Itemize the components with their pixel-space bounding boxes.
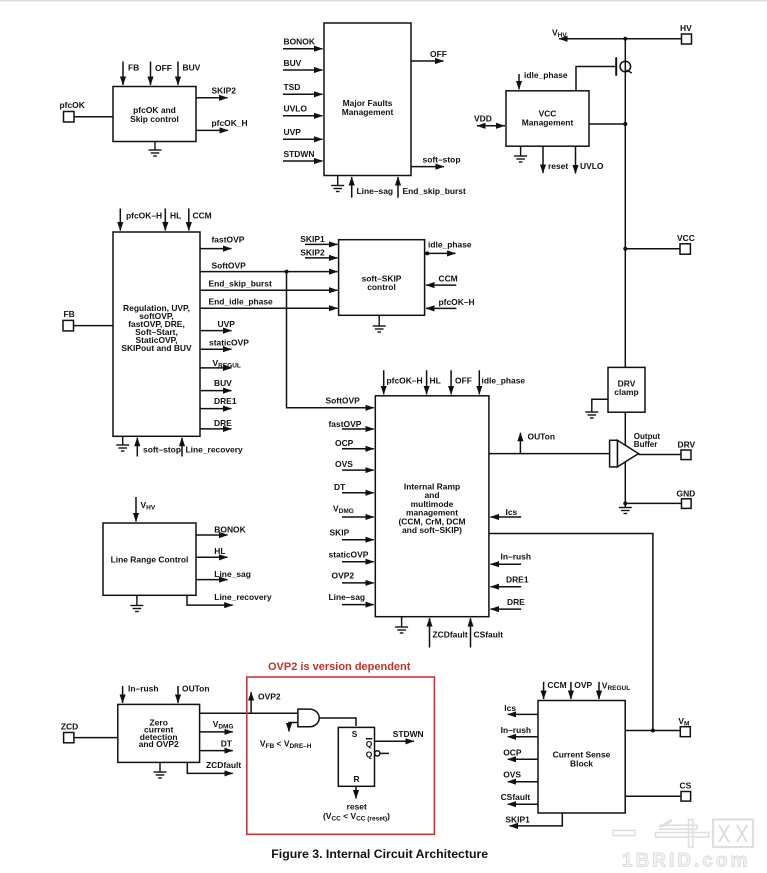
svg-text:pfcOK–H: pfcOK–H	[439, 297, 475, 307]
svg-text:CSfault: CSfault	[474, 630, 504, 640]
wire BUV output of U4	[200, 378, 232, 391]
svg-text:OVP2: OVP2	[332, 571, 355, 581]
svg-text:UVLO: UVLO	[284, 104, 308, 114]
block U1: pfcOK and Skip control	[113, 87, 196, 142]
svg-text:Line Range Control: Line Range Control	[111, 554, 189, 564]
svg-text:CCM: CCM	[193, 211, 212, 221]
wire Line_sag output of U9	[196, 569, 251, 580]
svg-text:soft–stop: soft–stop	[143, 445, 181, 455]
wire Line_recovery input to U4 bottom	[182, 438, 243, 457]
wire VDMG input to U6	[333, 504, 374, 518]
svg-text:SKIP1: SKIP1	[505, 815, 530, 825]
junction VCC-rail	[623, 247, 627, 251]
wire idle_phase input to U3	[519, 70, 568, 89]
svg-text:FB: FB	[128, 63, 139, 73]
ground left of U7	[585, 399, 608, 418]
svg-text:and OVP2: and OVP2	[139, 739, 179, 749]
wire pfcOK-H input to U5 from right	[426, 297, 475, 308]
block U9: Line Range Control	[103, 523, 196, 595]
latch U12: SR latch	[338, 727, 374, 786]
svg-text:SKIP: SKIP	[330, 528, 350, 538]
wire CCM input to U5 from right	[426, 274, 458, 286]
wire OVP input to U13	[571, 680, 593, 699]
svg-text:HL: HL	[170, 211, 181, 221]
watermark domain text	[622, 851, 750, 872]
wire OCP input to U6	[335, 438, 374, 449]
svg-text:OVS: OVS	[503, 770, 521, 780]
svg-text:OUTon: OUTon	[528, 432, 556, 442]
wire Line_recovery output of U9	[187, 592, 272, 605]
wire DT output of U10	[200, 739, 233, 751]
svg-text:CCM: CCM	[439, 274, 458, 284]
svg-text:OVP2: OVP2	[258, 692, 281, 702]
svg-text:End_skip_burst: End_skip_burst	[403, 186, 466, 196]
wire OCP output of U13	[503, 748, 538, 760]
wire OVP2 net U10 to AND gate	[200, 712, 298, 714]
svg-text:Ics: Ics	[506, 507, 518, 517]
AND gate U11	[298, 709, 319, 727]
wire CSfault output of U13	[501, 792, 538, 804]
wire AND output to latch S input	[319, 718, 356, 726]
wire comparator VFB lt VDRE-H to AND gate	[260, 723, 312, 751]
svg-text:1BRID.com: 1BRID.com	[622, 851, 750, 872]
wire VCC pad to rail	[625, 248, 680, 250]
pad HV	[680, 23, 692, 44]
wire UVP input to U2	[283, 127, 323, 139]
svg-text:idle_phase: idle_phase	[428, 240, 472, 250]
block U2: Major Faults Management	[324, 23, 411, 176]
svg-text:reset: reset	[548, 161, 568, 171]
wire OUTon stub arrow	[520, 432, 555, 454]
svg-text:UVP: UVP	[284, 127, 302, 137]
svg-text:End_skip_burst: End_skip_burst	[209, 279, 272, 289]
caption Figure 3	[271, 847, 488, 861]
wire UVP output of U4	[200, 319, 235, 331]
svg-text:VDD: VDD	[474, 114, 492, 124]
pad pfcOK	[60, 100, 86, 122]
svg-text:UVP: UVP	[218, 319, 236, 329]
junction GND rail	[623, 501, 627, 505]
svg-text:Skip control: Skip control	[130, 114, 179, 124]
wire OFF output of U2	[411, 49, 447, 61]
svg-text:idle_phase: idle_phase	[524, 70, 568, 80]
ground under U1	[149, 142, 162, 157]
wire VDD bidirectional of U3	[474, 114, 505, 126]
pad DRV	[678, 440, 696, 460]
svg-text:SKIP2: SKIP2	[212, 86, 237, 96]
svg-text:BUV: BUV	[214, 378, 232, 388]
svg-text:Q: Q	[366, 739, 373, 749]
watermark logo	[613, 820, 753, 848]
wire In-rush input to U6 right	[491, 552, 531, 565]
transistor Q1 startup	[616, 57, 632, 75]
svg-text:S: S	[352, 729, 358, 739]
wire CCM input to U4	[189, 209, 212, 231]
wire CCM input to U13	[544, 680, 567, 699]
wire fastOVP output of U4	[200, 235, 245, 249]
svg-text:Management: Management	[342, 107, 394, 117]
op-amp U8: Output Buffer	[610, 432, 661, 467]
wire CSfault input to U6 bottom	[471, 618, 504, 647]
pad GND	[677, 489, 696, 509]
svg-text:GND: GND	[677, 489, 696, 499]
wire Qbar output STDWN	[375, 729, 424, 741]
svg-text:staticOVP: staticOVP	[329, 550, 369, 560]
wire OUTon input to U10	[178, 684, 210, 703]
svg-text:fastOVP: fastOVP	[329, 419, 362, 429]
svg-text:Figure 3. Internal Circuit Arc: Figure 3. Internal Circuit Architecture	[271, 847, 488, 861]
wire HL input to U4	[165, 209, 181, 231]
wire U6 to VM net	[489, 534, 653, 731]
wire BONOK input to U2	[283, 37, 323, 49]
pad ZCD	[61, 722, 78, 743]
svg-text:OCP: OCP	[503, 748, 522, 758]
wire staticOVP input to U6	[329, 550, 374, 562]
junction HV rail	[623, 37, 627, 41]
wire ZCDfault output of U10	[187, 760, 241, 773]
svg-text:DT: DT	[221, 739, 233, 749]
wire reset input to latch R	[323, 786, 390, 822]
ground under U10	[154, 762, 167, 778]
svg-text:fastOVP: fastOVP	[212, 235, 245, 245]
svg-text:Line_recovery: Line_recovery	[186, 445, 244, 455]
svg-text:CSfault: CSfault	[501, 792, 531, 802]
svg-text:TSD: TSD	[284, 82, 301, 92]
svg-text:In–rush: In–rush	[501, 725, 531, 735]
wire STDWN input to U2	[283, 149, 323, 161]
wire U13 to VM pad	[625, 730, 680, 732]
wire In-rush output of U13	[501, 725, 538, 737]
junction SoftOVP	[285, 270, 289, 274]
svg-text:DRE1: DRE1	[214, 396, 237, 406]
wire SKIP input to U6	[330, 528, 374, 540]
wire DRE1 output of U4	[200, 396, 237, 409]
wire HV vertical rail	[624, 39, 626, 368]
wire DRE output of U4	[200, 418, 232, 429]
wire buffer to DRV pad	[639, 454, 682, 456]
wire OFF input to U6 top	[451, 370, 472, 394]
wire End_skip_burst input to U2 bottom	[398, 177, 466, 198]
svg-text:OVP: OVP	[574, 680, 592, 690]
svg-text:HL: HL	[430, 376, 441, 386]
wire OFF input to U1	[151, 62, 172, 86]
svg-text:CCM: CCM	[547, 680, 566, 690]
svg-text:pfcOK: pfcOK	[60, 100, 86, 110]
wire pfcOK-H input to U6 top	[384, 370, 423, 394]
ground at GND rail	[619, 501, 632, 514]
red note box: OVP2 is version dependent	[247, 661, 435, 834]
wire ZCDfault input to U6 bottom	[430, 618, 468, 647]
block U4: Regulation UVP softOVP fastOVP DRE Soft-Start StaticOVP SKIPout and BUV	[113, 232, 200, 436]
wire Ics input to U6 right	[491, 507, 522, 517]
wire End_skip_burst net U4 to U5	[200, 279, 338, 291]
block U6: Internal Ramp and multimode management	[375, 396, 489, 617]
wire fastOVP input to U6	[329, 419, 374, 429]
svg-text:DRV: DRV	[678, 440, 696, 450]
wire HL output of U9	[196, 546, 228, 557]
svg-text:clamp: clamp	[614, 387, 638, 397]
svg-text:SKIPout and BUV: SKIPout and BUV	[121, 343, 192, 353]
wire U3 right to HV rail	[589, 123, 625, 125]
wire VREGUL input to U13	[599, 681, 630, 700]
svg-text:In–rush: In–rush	[128, 684, 158, 694]
wire OVP2 stub arrow up	[251, 692, 281, 714]
svg-text:OFF: OFF	[455, 376, 472, 386]
svg-text:and soft–SKIP): and soft–SKIP)	[402, 525, 462, 535]
wire SoftOVP drop to U6	[287, 272, 374, 408]
svg-text:OFF: OFF	[430, 49, 447, 59]
svg-text:BONOK: BONOK	[284, 37, 316, 47]
wire rail to GND pad	[625, 502, 681, 504]
svg-text:STDWN: STDWN	[284, 149, 315, 159]
wire BUV input to U2	[283, 58, 323, 70]
wire ZCD pad to U10	[74, 737, 118, 739]
svg-text:reset: reset	[347, 802, 367, 812]
svg-text:OCP: OCP	[335, 438, 354, 448]
wire reset output of U3	[543, 146, 568, 173]
wire VREGUL output of U4	[200, 358, 241, 370]
wire OVS output of U13	[503, 770, 538, 782]
ground under U4	[116, 436, 129, 451]
wire OVS input to U6	[335, 459, 374, 470]
svg-text:HL: HL	[214, 546, 225, 556]
wire U13 to CS pad	[625, 795, 681, 797]
wire End_idle_phase net U4 to U5	[200, 297, 338, 309]
pad CS	[680, 781, 692, 802]
wire U7 bottom to buffer	[624, 412, 626, 503]
svg-text:OVS: OVS	[335, 459, 353, 469]
svg-text:soft–stop: soft–stop	[423, 155, 461, 165]
wire SKIP2 output of U1	[196, 86, 236, 98]
wire idle_phase output of U5	[425, 240, 472, 256]
wire BONOK output of U9	[196, 525, 247, 536]
svg-text:SoftOVP: SoftOVP	[212, 261, 247, 271]
wire pfcOK-H input to U4	[120, 209, 162, 231]
wire DRE input to U6 right	[491, 597, 526, 609]
svg-text:Management: Management	[522, 118, 574, 128]
svg-text:SoftOVP: SoftOVP	[326, 396, 361, 406]
ground under U6	[395, 617, 408, 633]
svg-text:End_idle_phase: End_idle_phase	[209, 297, 274, 307]
wire idle_phase input to U6 top	[479, 370, 525, 394]
svg-text:BUV: BUV	[284, 58, 302, 68]
svg-text:ZCDfault: ZCDfault	[206, 760, 241, 770]
wire soft-stop input to U4 bottom	[137, 438, 181, 457]
svg-text:SKIP2: SKIP2	[300, 248, 325, 258]
ground under U3	[514, 146, 527, 162]
svg-text:OUTon: OUTon	[182, 684, 210, 694]
wire pfcOK_H output of U1	[196, 118, 248, 130]
ground under U5	[373, 315, 386, 332]
wire staticOVP output of U4	[200, 338, 249, 350]
svg-text:ZCD: ZCD	[61, 722, 78, 732]
wire DT input to U6	[334, 482, 374, 493]
svg-text:idle_phase: idle_phase	[482, 376, 526, 386]
wire FB pad to U4	[74, 325, 114, 327]
wire Line-sag input to U2 bottom	[352, 177, 393, 198]
block U7: DRV clamp	[608, 367, 645, 412]
wire VHV input to U9	[136, 497, 156, 522]
pad FB	[63, 309, 75, 331]
wire soft-stop output of U2	[411, 155, 460, 167]
wire SKIP2 input to U5	[300, 248, 337, 258]
svg-text:pfcOK–H: pfcOK–H	[387, 376, 423, 386]
svg-text:control: control	[367, 282, 396, 292]
wire DRE1 input to U6 right	[491, 575, 529, 587]
wire OUTon output of U6 to buffer	[489, 453, 610, 455]
wire UVLO input to U2	[283, 104, 323, 116]
svg-text:In–rush: In–rush	[501, 552, 531, 562]
svg-text:Buffer: Buffer	[634, 440, 658, 449]
svg-text:SKIP1: SKIP1	[300, 234, 325, 244]
wire SKIP1 output of U13 bottom	[505, 813, 562, 826]
svg-text:FB: FB	[64, 309, 75, 319]
svg-text:STDWN: STDWN	[393, 729, 424, 739]
svg-text:HV: HV	[680, 23, 692, 33]
svg-text:OFF: OFF	[155, 63, 172, 73]
wire BUV input to U1	[178, 62, 201, 86]
svg-text:staticOVP: staticOVP	[209, 338, 249, 348]
svg-text:Line_sag: Line_sag	[214, 569, 251, 579]
svg-text:pfcOK–H: pfcOK–H	[126, 211, 162, 221]
svg-text:VCC: VCC	[677, 233, 695, 243]
svg-text:BONOK: BONOK	[214, 525, 246, 535]
wire SKIP1 input to U5	[300, 234, 337, 244]
wire Line-sag input to U6	[329, 592, 374, 605]
ground under U9	[130, 595, 143, 611]
svg-text:Ics: Ics	[504, 703, 516, 713]
pad VCC	[677, 233, 695, 254]
svg-text:Line–sag: Line–sag	[357, 186, 394, 196]
block U13: Current Sense Block	[538, 701, 625, 814]
svg-text:BUV: BUV	[183, 63, 201, 73]
pad VM	[678, 716, 690, 737]
svg-text:DT: DT	[334, 482, 346, 492]
junction VM net	[651, 729, 655, 733]
svg-text:ZCDfault: ZCDfault	[433, 630, 468, 640]
wire UVLO output of U3	[576, 146, 604, 173]
svg-text:DRE1: DRE1	[506, 575, 529, 585]
svg-text:UVLO: UVLO	[580, 161, 604, 171]
svg-text:pfcOK_H: pfcOK_H	[212, 118, 248, 128]
wire pfcOK pad to U1	[74, 116, 113, 118]
block U3: VCC Management	[506, 91, 589, 146]
ground under U2	[331, 176, 344, 192]
wire gate of Q1 from U3	[576, 67, 616, 91]
svg-text:Q: Q	[366, 750, 373, 760]
wire SoftOVP net U4 to U5	[200, 261, 338, 272]
wire In-rush input to U10	[123, 684, 159, 703]
svg-text:Line–sag: Line–sag	[329, 592, 366, 602]
block U10: Zero current detection and OVP2	[118, 704, 200, 762]
svg-text:Line_recovery: Line_recovery	[214, 592, 272, 602]
svg-text:Block: Block	[570, 758, 593, 768]
wire HL input to U6 top	[427, 370, 441, 394]
wire TSD input to U2	[283, 82, 323, 94]
svg-text:CS: CS	[680, 781, 692, 791]
wire HV rail to VHV arrow	[552, 28, 682, 40]
top scan edge	[0, 0, 767, 2]
bubble Q output	[375, 751, 389, 756]
svg-text:OVP2 is version dependent: OVP2 is version dependent	[268, 661, 411, 673]
wire Ics output of U13	[504, 703, 538, 714]
wire VDMG output of U10	[200, 719, 234, 732]
block U5: soft-SKIP control	[339, 240, 425, 316]
svg-text:DRE: DRE	[507, 597, 525, 607]
wire FB input to U1	[123, 62, 139, 86]
wire OVP2 input to U6	[332, 571, 374, 583]
svg-text:DRE: DRE	[214, 418, 232, 428]
svg-text:R: R	[354, 774, 360, 784]
junction U3-rail	[623, 122, 627, 126]
